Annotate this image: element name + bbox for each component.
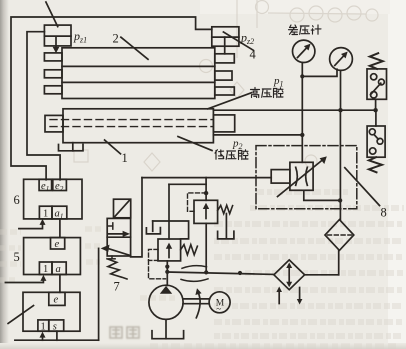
piston rod dashed lines — [50, 120, 212, 127]
pilot vertical into relief valve 3 — [205, 178, 207, 201]
leader line 8 — [345, 168, 380, 206]
valve 7 through arrow — [108, 231, 130, 237]
relief valve lower outlet stem — [166, 261, 168, 286]
relief valve upper — [194, 200, 218, 223]
cylinder 2 body — [62, 48, 215, 99]
svg-text:7: 7 — [114, 280, 120, 294]
node return-relief — [204, 270, 208, 274]
amplifier box 5 — [24, 238, 81, 275]
filter — [325, 220, 354, 251]
hand drawn hanzi labels — [215, 25, 321, 160]
pump compensator dashes — [149, 260, 166, 278]
relief valve lower — [158, 239, 181, 261]
relief valve upper drain stem — [225, 214, 227, 239]
leader line 4 — [223, 32, 253, 50]
pressure switch 2 — [367, 126, 385, 157]
flow valve adjust arrow — [278, 156, 327, 196]
hanzi ji — [311, 25, 321, 34]
ghost diamond mid left — [144, 153, 160, 171]
leader line 1 — [105, 140, 121, 154]
P2 low pressure line — [213, 134, 302, 136]
directional valve 7 body — [107, 218, 130, 256]
valve 7 left port riser — [98, 248, 100, 340]
svg-text:6: 6 — [14, 193, 20, 207]
ghost circle mid — [305, 155, 317, 167]
ghost diamond in cylinder — [230, 82, 244, 98]
cooler outlet arrow — [297, 288, 303, 305]
ghost text rows right column — [214, 192, 404, 336]
relief valve lower spring — [181, 245, 198, 255]
node pump outlet lower — [165, 270, 169, 274]
relief valve upper pilot dashes — [188, 193, 207, 211]
node P1-gauge2 — [338, 108, 342, 112]
wire a-to-e — [59, 275, 61, 293]
valve 7 lower passage arrow — [101, 245, 131, 256]
servo box lower — [23, 292, 80, 331]
input arrow servo box — [40, 332, 46, 341]
cylinder 2 right port tabs — [215, 54, 235, 95]
gauge equalizing link — [302, 69, 337, 76]
cylinder 1 mount bracket — [59, 143, 84, 151]
callout line to pz1 — [46, 2, 58, 27]
filter outlet pipe — [338, 250, 340, 274]
cooler to filter link — [305, 274, 339, 276]
flow control valve — [290, 162, 313, 190]
relief valve upper spring — [218, 205, 233, 213]
hanzi di — [215, 150, 224, 160]
valve 7 blocked port lower — [109, 256, 115, 259]
cooler — [274, 260, 305, 290]
svg-text:2: 2 — [113, 32, 119, 46]
ghost text rows left margin — [0, 229, 400, 346]
hanzi ya3 — [226, 151, 236, 159]
gauge 1 stem down to flow valve — [301, 63, 303, 163]
svg-text:s: s — [53, 321, 57, 332]
svg-text:1: 1 — [41, 321, 46, 332]
input arrow box 5 — [5, 275, 46, 283]
leader line 2 — [121, 37, 148, 59]
node gauge1-equalize — [300, 74, 304, 78]
pressure switch 1 stem — [375, 99, 377, 110]
feed branch to relief valves — [153, 184, 206, 239]
electric motor M — [209, 292, 230, 313]
node P1-switch column — [373, 108, 377, 112]
pump variable arrow — [195, 288, 201, 318]
pressure switch 2 stem — [375, 110, 377, 126]
valve 7 return spring — [107, 259, 127, 279]
svg-text:~: ~ — [216, 304, 221, 314]
pressure switch 2 spring — [369, 157, 382, 172]
solenoid box valve 7 — [114, 199, 131, 218]
wire pz1-to-e2 — [27, 32, 60, 180]
svg-text:5: 5 — [14, 250, 20, 264]
leader to diyaqiang label — [178, 137, 212, 151]
svg-text:1: 1 — [122, 151, 128, 165]
swash arc lower — [181, 279, 208, 282]
ghost small box left — [74, 150, 88, 162]
cooler inlet arrow — [276, 287, 282, 304]
ghost bold chars bottom left — [110, 327, 139, 338]
comparator box 6 — [24, 179, 82, 219]
drive shaft — [183, 299, 209, 304]
measuring unit dash-dot enclosure — [256, 146, 357, 209]
diagonal adjust line servo box — [8, 306, 33, 324]
flow valve outlet pipe — [304, 190, 340, 200]
svg-text:1: 1 — [43, 208, 48, 219]
input wire bottom — [15, 339, 99, 341]
node return mid — [238, 271, 242, 275]
valve 7 blocked port upper — [107, 223, 112, 229]
pump suction stem — [165, 319, 167, 338]
supply pipe to flow valve — [142, 177, 271, 179]
hanzi ya — [300, 26, 310, 34]
gauge 2 stem — [340, 70, 342, 110]
tank symbol left drain — [146, 221, 160, 234]
swash arc upper — [182, 266, 207, 269]
svg-text:e: e — [54, 295, 59, 306]
hanzi qiang2 — [239, 150, 249, 160]
pressure sensor pz1 — [44, 25, 71, 53]
valve 7 right port riser — [131, 178, 142, 257]
flow valve port block — [271, 170, 290, 184]
node P2 junction — [300, 133, 304, 137]
input arrow box 6 — [19, 219, 46, 229]
hanzi ya2 — [262, 89, 272, 97]
svg-text:a: a — [56, 264, 61, 275]
return line pump to cooler — [167, 272, 274, 274]
cylinder 2 left port tabs — [44, 53, 62, 94]
relief valve lower pilot box dashes — [149, 249, 159, 260]
pump — [149, 285, 183, 319]
tank symbol upper — [218, 231, 234, 239]
ghost circle chain top — [256, 1, 269, 14]
cylinder 1 body — [45, 109, 235, 143]
node outlet junction — [338, 198, 342, 202]
hanzi gao — [251, 88, 260, 98]
hanzi qiang — [274, 88, 284, 98]
drain line from P1 down to filter — [339, 110, 341, 219]
relief valve upper outlet to return — [205, 223, 207, 272]
ghost vertical line — [236, 0, 238, 58]
wire a1-to-e — [59, 219, 61, 238]
svg-text:8: 8 — [381, 206, 387, 220]
ghost circle in cylinder — [200, 60, 213, 73]
pressure gauge 1 — [293, 40, 315, 62]
svg-text:e: e — [55, 239, 60, 250]
wire pz2-to-e1 — [11, 17, 212, 180]
pressure switch 1 spring — [370, 53, 383, 69]
svg-text:4: 4 — [250, 48, 257, 62]
wire s-to-bottom — [56, 331, 58, 340]
tank symbol pump — [152, 331, 184, 339]
node pump outlet upper — [165, 265, 169, 269]
pressure gauge 2 — [330, 48, 353, 71]
pressure switch 1 — [367, 69, 387, 99]
pressure sensor pz2 — [212, 27, 239, 54]
leader to gaoyaqiang label — [208, 93, 252, 109]
svg-text:1: 1 — [43, 264, 48, 275]
hanzi cha (differential gauge label) — [289, 25, 298, 35]
node pilot junction — [204, 191, 208, 195]
P1 high pressure line — [213, 109, 375, 111]
